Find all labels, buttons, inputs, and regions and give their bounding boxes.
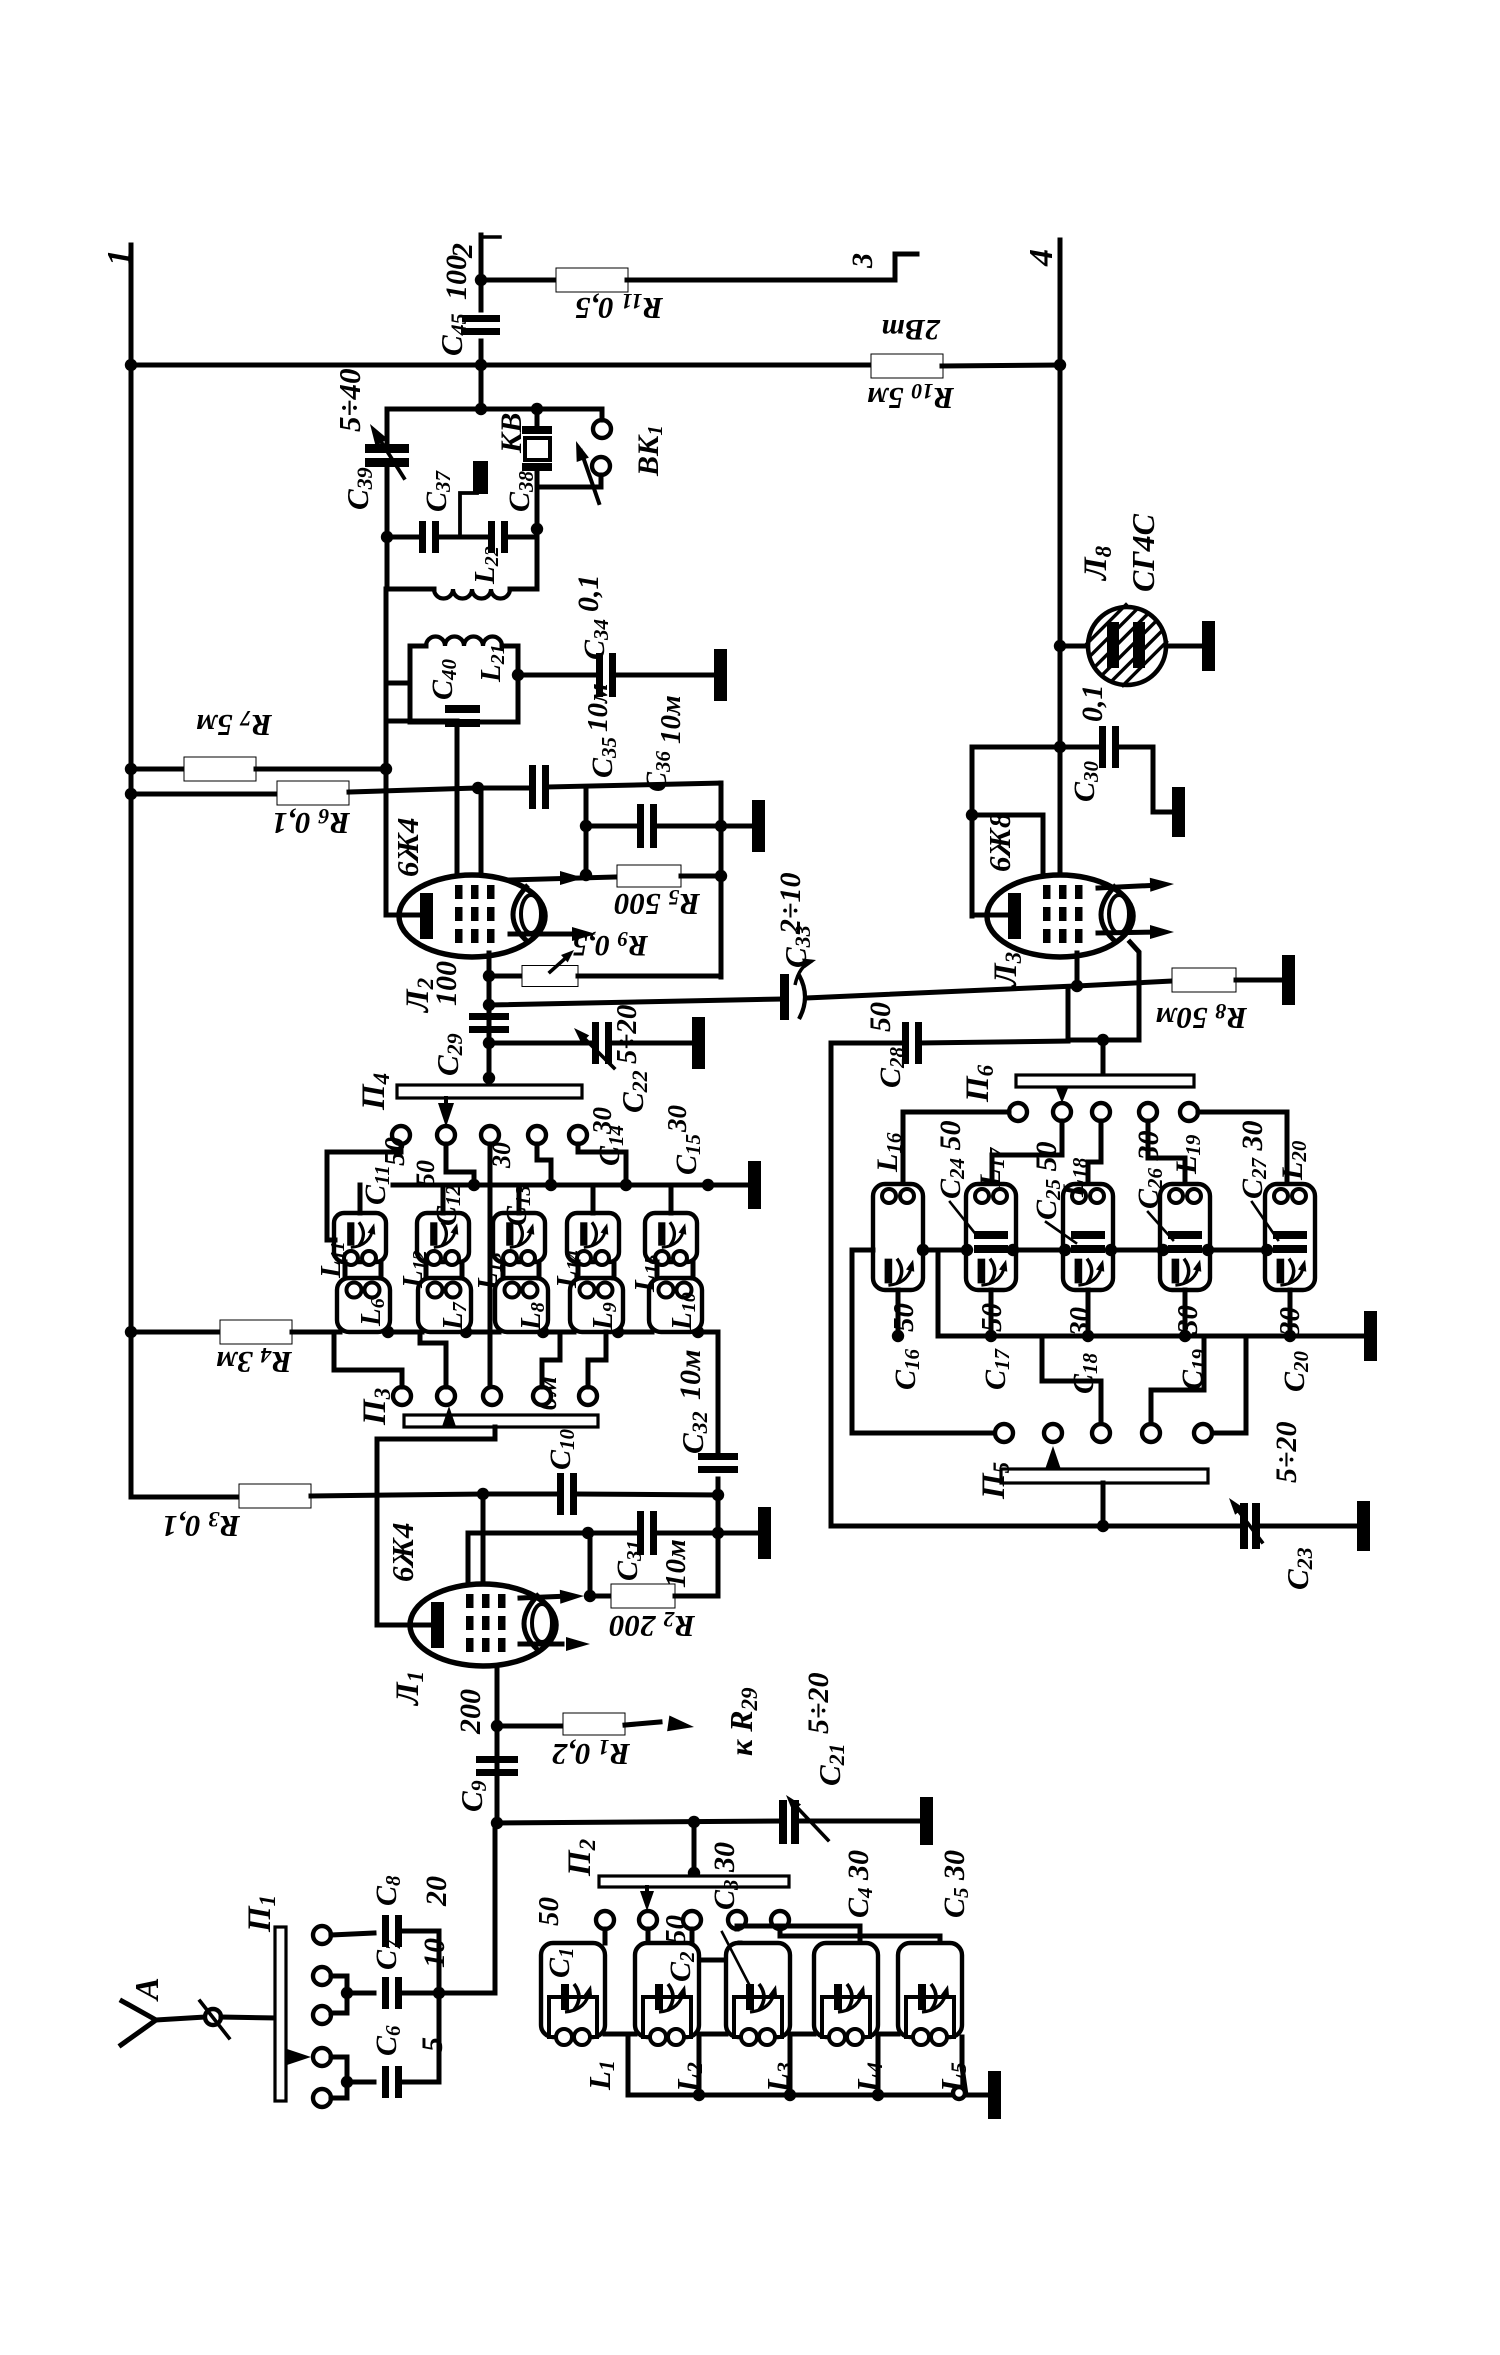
wire grid loop L3 bbox=[970, 747, 975, 916]
arrow of C22 bbox=[581, 1035, 614, 1068]
svg-text:5÷40: 5÷40 bbox=[332, 368, 367, 432]
svg-text:30: 30 bbox=[1172, 1305, 1204, 1335]
resistor R6 bbox=[131, 792, 277, 797]
resistor R11 bbox=[556, 268, 628, 292]
wire bus to R10 bbox=[131, 363, 872, 368]
wire P5 stub bbox=[1101, 1483, 1106, 1526]
node bus/C45 bbox=[475, 359, 487, 371]
wire C33 to L3 bbox=[806, 986, 1075, 998]
trimmer cell C12 bbox=[417, 1213, 469, 1262]
wire L3 bottom lead bbox=[1075, 953, 1080, 986]
svg-text:200: 200 bbox=[454, 1689, 487, 1735]
inductor L10 bbox=[649, 1278, 702, 1332]
arrow of P4 bbox=[438, 1103, 454, 1127]
inductor L3 cell bbox=[726, 1943, 790, 2037]
capacitor C30 bbox=[1060, 745, 1100, 750]
resistor R8 bbox=[1077, 981, 1172, 986]
capacitor C7 bbox=[347, 1991, 374, 1996]
ground bbox=[1357, 1501, 1370, 1551]
svg-text:5÷20: 5÷20 bbox=[802, 1673, 835, 1734]
svg-text:R6 0,1: R6 0,1 bbox=[272, 804, 351, 841]
tube L2 (6Zh4) bbox=[399, 875, 545, 957]
wire R4 line bbox=[131, 1330, 220, 1335]
wire right bank links bbox=[923, 1248, 967, 1253]
capacitor C25 bbox=[1071, 1231, 1105, 1239]
tube L3 (6Zh8) bbox=[987, 875, 1133, 957]
capacitor C26 bbox=[1168, 1231, 1202, 1239]
wire P2 riser bbox=[692, 1822, 697, 1876]
capacitor C35 bbox=[478, 786, 530, 791]
wire right bank bottom bus bbox=[938, 1334, 1362, 1339]
svg-text:10м: 10м bbox=[674, 1349, 707, 1400]
wire L2 bottom lead bbox=[487, 953, 492, 1078]
wire C33 line bbox=[489, 999, 781, 1005]
svg-text:5÷20: 5÷20 bbox=[1270, 1422, 1303, 1483]
wire anode R5 line bbox=[510, 877, 617, 880]
svg-text:R8 50м: R8 50м bbox=[1155, 999, 1248, 1036]
wire P2 c2 to L2 bbox=[646, 1929, 651, 1943]
capacitor C38 bbox=[488, 521, 495, 553]
wire P3 c1 link bbox=[334, 1332, 402, 1387]
capacitor C34 bbox=[596, 653, 603, 697]
svg-text:6Ж4: 6Ж4 bbox=[385, 1523, 420, 1582]
wire bottom links bbox=[605, 2032, 635, 2037]
svg-text:30: 30 bbox=[662, 1105, 692, 1134]
antenna breaker bbox=[205, 2009, 221, 2025]
svg-text:А: А bbox=[129, 1977, 166, 2002]
trimmer C16 bbox=[885, 1259, 893, 1284]
inductor L6 bbox=[337, 1278, 390, 1332]
wire terminal 2 / C45 branch bbox=[479, 235, 484, 310]
wire cathode lead L1 bbox=[377, 1623, 432, 1628]
capacitor C31 bbox=[468, 1531, 638, 1536]
capacitor C23 (variable) bbox=[1240, 1503, 1248, 1549]
wire R1 arrow to R29 bbox=[625, 1722, 660, 1725]
wire anode drop to P6 bbox=[1068, 942, 1139, 1040]
wire P5 c3 link bbox=[1042, 1336, 1101, 1424]
ground bbox=[1172, 787, 1185, 837]
wire C35 riser bbox=[719, 783, 724, 977]
wire R11 branch bbox=[481, 278, 557, 283]
svg-text:R5 500: R5 500 bbox=[614, 885, 701, 922]
inductor L19 cell bbox=[1160, 1184, 1210, 1290]
switch P3 contacts bbox=[393, 1387, 411, 1405]
switch P4 bar bbox=[483, 1072, 495, 1084]
wire P2 c1 to L1 bbox=[603, 1929, 608, 1943]
trimmer C4 bbox=[834, 1984, 842, 2010]
wire g2 jog L3 bbox=[972, 815, 1043, 877]
svg-text:0,1: 0,1 bbox=[572, 575, 605, 613]
crystal KV bbox=[535, 409, 540, 427]
svg-text:3: 3 bbox=[846, 253, 879, 269]
arrow of P6 bbox=[1056, 1087, 1069, 1103]
svg-text:6Ж8: 6Ж8 bbox=[982, 812, 1017, 872]
capacitor C21 (variable) bbox=[779, 1800, 787, 1844]
trimmer cell C13 bbox=[493, 1213, 545, 1262]
switch P2 contacts bbox=[596, 1911, 614, 1929]
wire C22 line bbox=[489, 1041, 593, 1046]
wire P6 c5 to L20 bbox=[1198, 1112, 1287, 1184]
wire anode riser to C31 bbox=[588, 1533, 593, 1596]
switch VK1 arm bbox=[581, 451, 599, 503]
resistor R10 bbox=[871, 354, 943, 378]
wire P2 c4 to L4 bbox=[737, 1926, 860, 1943]
ground bbox=[988, 2071, 1001, 2119]
capacitor C8 bbox=[382, 1915, 389, 1947]
svg-text:20: 20 bbox=[420, 1876, 453, 1907]
resistor R5 bbox=[617, 865, 681, 887]
wire screen arrow L1 bbox=[520, 1642, 562, 1647]
tube L8 (SG4S gas regulator) bbox=[1088, 607, 1166, 685]
arrow of P2 bbox=[645, 1887, 649, 1893]
wire antenna to P1 bbox=[221, 2017, 275, 2018]
wire R2 to rail bbox=[675, 1594, 718, 1599]
capacitor C32 bbox=[716, 1332, 721, 1455]
trimmer C2 bbox=[655, 1984, 663, 2010]
junction circle bbox=[953, 2087, 965, 2099]
svg-text:С5 30: С5 30 bbox=[938, 1850, 973, 1918]
svg-text:С3 30: С3 30 bbox=[708, 1842, 743, 1910]
switch P2 bar bbox=[599, 1876, 789, 1887]
svg-text:R10 5м: R10 5м bbox=[867, 379, 955, 416]
wire C28 riser bbox=[1066, 988, 1071, 1040]
arrow of C39 bbox=[370, 424, 388, 446]
wire P3 stub to cathode bbox=[377, 1427, 495, 1625]
resistor R2 bbox=[590, 1594, 611, 1599]
svg-text:R7 5м: R7 5м bbox=[196, 706, 273, 743]
wire P1 c2/c3 join bbox=[331, 1976, 347, 2013]
inductor L16 cell bbox=[873, 1184, 923, 1290]
svg-text:50: 50 bbox=[533, 1897, 565, 1926]
switch P6 contacts bbox=[1009, 1103, 1027, 1121]
ground bbox=[714, 649, 727, 701]
ground bbox=[1202, 621, 1215, 671]
wire g3/cathode rail bbox=[384, 589, 389, 915]
svg-text:50: 50 bbox=[411, 1160, 440, 1186]
inductor L1 cell bbox=[541, 1943, 605, 2037]
capacitor C29 bbox=[483, 999, 495, 1011]
svg-text:R1 0,2: R1 0,2 bbox=[552, 1735, 631, 1772]
capacitor C22 (variable) bbox=[592, 1022, 599, 1064]
wire bottom bus bbox=[628, 2093, 986, 2098]
inductor L4 cell bbox=[814, 1943, 878, 2037]
trimmer cell C15 bbox=[645, 1213, 697, 1262]
wire P5 c1 link bbox=[852, 1250, 995, 1433]
resistor R7 bbox=[131, 767, 184, 772]
wire P1 c1 to C8 bbox=[331, 1933, 374, 1935]
wire grid line 1823 bbox=[495, 1821, 781, 1823]
inductor L2 cell bbox=[635, 1943, 699, 2037]
svg-text:2Вт: 2Вт bbox=[881, 313, 941, 346]
capacitor C45 bbox=[462, 315, 500, 322]
wire anode arrows L3 bbox=[1098, 885, 1160, 888]
wire C36 link bbox=[584, 787, 589, 875]
ground bbox=[752, 800, 765, 852]
wire cell bottom stubs bbox=[896, 1290, 901, 1336]
node bus/rail1 bbox=[125, 359, 137, 371]
svg-text:100: 100 bbox=[430, 961, 463, 1006]
switch P6 bar bbox=[1016, 1075, 1194, 1087]
trimmer C20 bbox=[1277, 1259, 1285, 1284]
ground bbox=[920, 1797, 933, 1845]
arrow of C33 bbox=[795, 961, 812, 985]
svg-text:КВ: КВ bbox=[495, 413, 528, 454]
wire inter-row links bbox=[343, 1262, 348, 1278]
arrow of P5 bbox=[1046, 1446, 1061, 1468]
svg-text:С4 30: С4 30 bbox=[842, 1850, 877, 1918]
ground bbox=[1282, 955, 1295, 1005]
capacitor C28 bbox=[831, 1041, 903, 1046]
svg-text:R3 0,1: R3 0,1 bbox=[162, 1507, 241, 1544]
capacitor C33 (semi-variable) bbox=[780, 974, 789, 1020]
svg-text:R2 200: R2 200 bbox=[609, 1607, 696, 1644]
wire P3 c5 link bbox=[588, 1332, 606, 1387]
inductor L20 cell bbox=[1265, 1184, 1315, 1290]
resistor R1 bbox=[497, 1724, 564, 1729]
ground bbox=[748, 1161, 761, 1209]
wire P6 c3 to L18 bbox=[1088, 1121, 1101, 1184]
trimmer C1 bbox=[561, 1984, 569, 2010]
trimmer C5 bbox=[918, 1984, 926, 2010]
trimmer cell C11 bbox=[334, 1213, 386, 1262]
svg-text:5: 5 bbox=[416, 2037, 449, 2052]
capacitor C6 bbox=[347, 2080, 374, 2085]
svg-text:1: 1 bbox=[101, 249, 138, 266]
wire cell-top stubs bbox=[358, 1185, 363, 1213]
svg-text:6Ж4: 6Ж4 bbox=[390, 818, 425, 877]
capacitor C9 bbox=[476, 1756, 518, 1763]
wire g2 lead bbox=[479, 788, 484, 877]
wire bus left riser bbox=[936, 1250, 941, 1336]
switch VK1 lower contact bbox=[592, 457, 610, 475]
wire P2 c5 to L5 bbox=[780, 1929, 940, 1943]
wire cathode lead L3 bbox=[972, 913, 1009, 918]
capacitor C36 bbox=[586, 824, 638, 829]
svg-text:R9 0,5: R9 0,5 bbox=[572, 927, 649, 962]
switch P1 bar bbox=[275, 1927, 286, 2101]
wire P5 c5 link bbox=[1212, 1336, 1246, 1433]
capacitor C37 bbox=[387, 535, 420, 540]
wire g2 lead L1 tube bbox=[466, 1533, 471, 1583]
switch P5 bar bbox=[1001, 1469, 1208, 1483]
svg-text:50: 50 bbox=[888, 1303, 920, 1332]
trimmer C3 bbox=[746, 1984, 754, 2010]
capacitor C24 bbox=[974, 1231, 1008, 1239]
svg-text:10м: 10м bbox=[655, 695, 687, 744]
arrow of P3 bbox=[442, 1406, 457, 1428]
inductor L21 loop box bbox=[410, 644, 426, 649]
wire left tall rail bbox=[829, 1043, 834, 1526]
capacitor C39 (variable) bbox=[385, 409, 390, 445]
inductor L17 cell bbox=[966, 1184, 1016, 1290]
node g2 bbox=[472, 782, 484, 794]
wire terminal 4 rail bbox=[1058, 240, 1063, 877]
wire P3 c2 link bbox=[420, 1332, 446, 1387]
antenna A bbox=[121, 2001, 156, 2045]
wire R10 to rail 4 bbox=[942, 365, 1060, 366]
resistor R3 bbox=[131, 1495, 239, 1500]
switch P4 contacts bbox=[392, 1126, 410, 1144]
wire screen arrow bbox=[510, 932, 570, 937]
wire L1 bottom lead bbox=[495, 1667, 500, 1823]
wire mid bus segments bbox=[382, 1326, 394, 1338]
switch P3 bar bbox=[404, 1415, 598, 1427]
inductor L5 cell bbox=[898, 1943, 962, 2037]
svg-text:0,1: 0,1 bbox=[1076, 685, 1109, 723]
trimmer cell C14 bbox=[567, 1213, 619, 1262]
svg-text:10м: 10м bbox=[660, 1539, 692, 1588]
wire P6 c1 to L16 bbox=[903, 1112, 1009, 1184]
wire cathode lead L2 bbox=[386, 913, 421, 918]
wire anode to R2 bbox=[520, 1596, 570, 1598]
wire caps to grid node bbox=[439, 1823, 495, 1993]
wire R11 to terminal 3 bbox=[627, 254, 917, 280]
svg-text:2÷10: 2÷10 bbox=[774, 873, 807, 935]
switch P5 contacts bbox=[995, 1424, 1013, 1442]
switch P1 contacts bbox=[313, 1926, 331, 1944]
ground bbox=[692, 1017, 705, 1069]
svg-text:10: 10 bbox=[418, 1938, 451, 1968]
wire L21 to cathode rail bbox=[386, 681, 410, 686]
trimmer C17 bbox=[978, 1259, 986, 1284]
arrow of P1 bbox=[287, 2049, 311, 2065]
wire P2 c3 to L3 bbox=[692, 1929, 740, 1960]
trimmer C18 bbox=[1075, 1259, 1083, 1284]
wire C37-C38 bbox=[437, 535, 489, 540]
switch P4 contact wires bbox=[327, 1144, 401, 1240]
resistor R4 bbox=[220, 1320, 292, 1344]
wire P6 feed bbox=[1101, 1040, 1106, 1075]
wire bus risers bbox=[626, 2037, 631, 2095]
node bus/rail4 bbox=[1054, 359, 1066, 371]
wire g1 lead L1 tube bbox=[481, 1496, 486, 1583]
wire L8 lead bbox=[1060, 644, 1089, 649]
svg-text:100: 100 bbox=[440, 255, 473, 300]
svg-text:СГ4С: СГ4С bbox=[1125, 513, 1161, 592]
trimmer C19 bbox=[1172, 1259, 1180, 1284]
wire P1 c4/c5 join bbox=[331, 2057, 347, 2098]
wire P5 c4 link bbox=[1151, 1336, 1204, 1424]
svg-text:R4 3м: R4 3м bbox=[216, 1343, 293, 1380]
switch VK1 upper contact bbox=[593, 420, 611, 438]
inductor L7 bbox=[418, 1278, 471, 1332]
svg-text:10м: 10м bbox=[582, 683, 614, 732]
tube L1 (6Zh4) bbox=[410, 1584, 556, 1666]
inductor L9 bbox=[570, 1278, 623, 1332]
inductor L18 cell bbox=[1063, 1184, 1113, 1290]
wire P6 c4 to L19 bbox=[1148, 1121, 1185, 1184]
wire P6 c2 to L17 bbox=[992, 1121, 1062, 1184]
svg-text:50: 50 bbox=[864, 1002, 897, 1032]
ground bbox=[1364, 1311, 1377, 1361]
wire C34 line bbox=[518, 673, 597, 678]
wire main bus 1 (vertical left rail) bbox=[129, 245, 134, 1497]
wire g3 jog bbox=[386, 721, 457, 877]
capacitor C10 bbox=[483, 1492, 558, 1497]
wire P3 c4 link bbox=[542, 1332, 560, 1387]
wire L8 to ground bbox=[1166, 644, 1200, 649]
svg-text:30: 30 bbox=[587, 1107, 617, 1136]
inductor L8 bbox=[495, 1278, 548, 1332]
stub electrode bbox=[460, 493, 477, 537]
capacitor C40 bbox=[410, 720, 448, 725]
svg-text:R11 0,5: R11 0,5 bbox=[575, 289, 664, 326]
arrow of R9 bbox=[550, 955, 569, 972]
svg-text:50: 50 bbox=[660, 1915, 692, 1944]
ground bbox=[758, 1507, 771, 1559]
capacitor C27 bbox=[1273, 1231, 1307, 1239]
svg-text:5÷20: 5÷20 bbox=[611, 1005, 643, 1064]
resistor R9 (variable) bbox=[489, 974, 523, 979]
inductor L22 bbox=[387, 587, 434, 592]
wire crystal block top bbox=[387, 407, 602, 412]
wire top bus middle bank bbox=[393, 1183, 746, 1188]
wire cap bus bbox=[437, 1931, 442, 2082]
svg-text:4: 4 bbox=[1023, 249, 1060, 267]
wire bottom right line bbox=[831, 1524, 1242, 1529]
